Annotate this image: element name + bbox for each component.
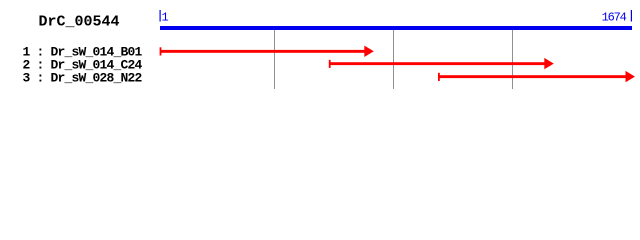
grid line 3: [512, 30, 513, 89]
clone arrow 2 head: [544, 58, 554, 69]
clone arrow 2 tail tick: [329, 60, 331, 68]
clone arrow 3 tail tick: [438, 73, 440, 81]
clone arrow 3 head: [626, 71, 636, 82]
ruler left tick: [160, 10, 161, 22]
svg-text:3 : Dr_sW_028_N22: 3 : Dr_sW_028_N22: [23, 71, 143, 86]
svg-text:1674: 1674: [602, 11, 627, 25]
svg-text:1: 1: [162, 11, 169, 25]
svg-text:DrC_00544: DrC_00544: [39, 14, 120, 31]
grid line 1: [274, 30, 275, 89]
ruler right tick: [631, 10, 632, 22]
ruler bar: [160, 26, 632, 30]
grid line 2: [393, 30, 394, 89]
clone arrow 1 head: [364, 46, 374, 57]
clone arrow 1 shaft: [160, 50, 365, 53]
clone arrow 2 shaft: [329, 62, 545, 65]
clone arrow 3 shaft: [438, 75, 626, 78]
clone arrow 1 tail tick: [160, 47, 162, 55]
